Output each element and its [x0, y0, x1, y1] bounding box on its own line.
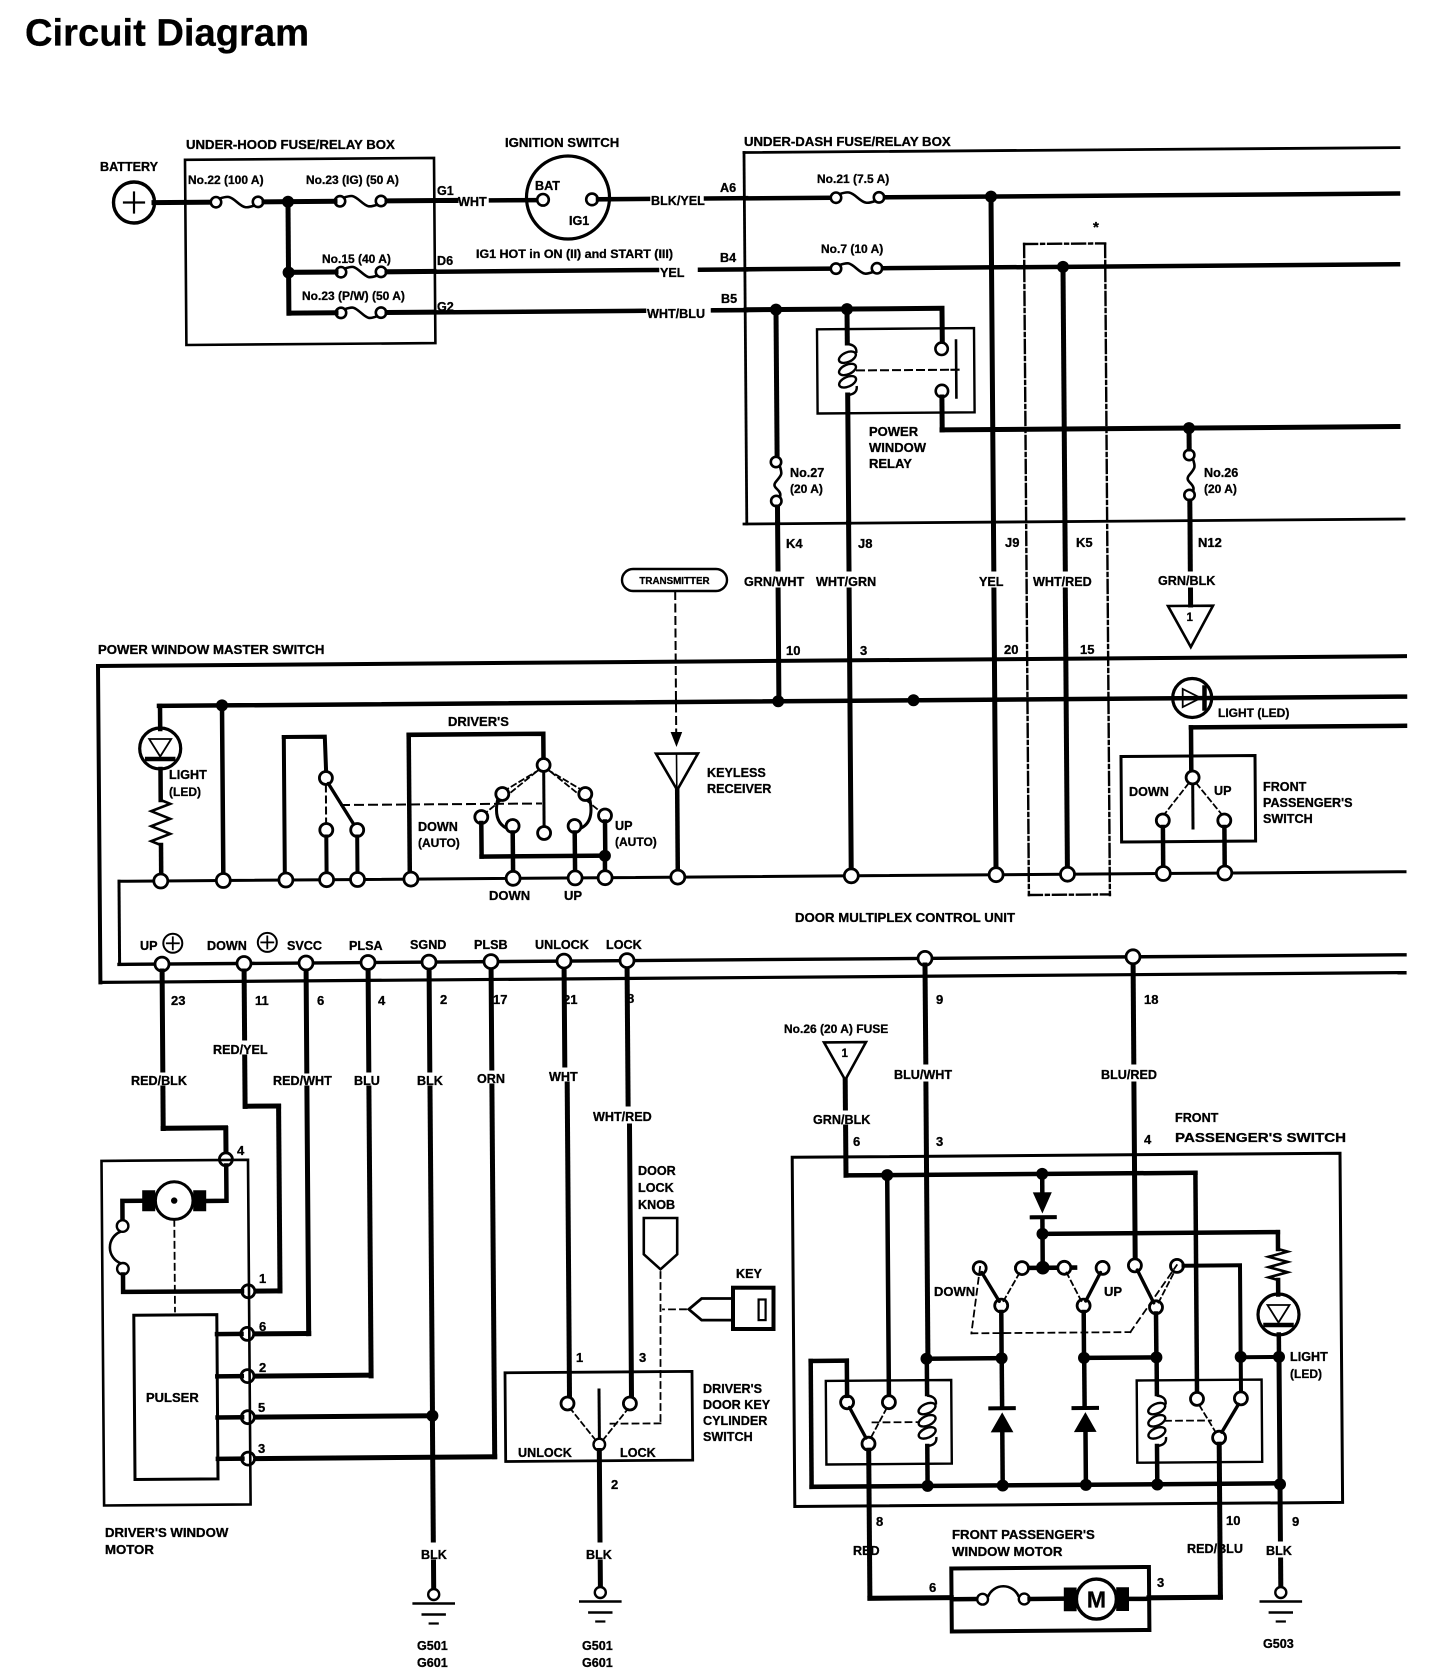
- cylinder switch pivot contact: [594, 1439, 606, 1451]
- svg-text:GRN/BLK: GRN/BLK: [1158, 574, 1215, 588]
- driver's switch UP arc: [578, 798, 592, 830]
- wire N12 GRN/BLK to triangle: [1188, 590, 1193, 605]
- wire BLK junction down to ground: [430, 1416, 436, 1540]
- driver's switch DOWN arc: [497, 798, 511, 830]
- wire J9 YEL lower to control unit: [994, 590, 996, 868]
- wire master internal supply row: [159, 697, 1405, 706]
- svg-text:WHT/GRN: WHT/GRN: [816, 575, 876, 589]
- power window relay box: [817, 328, 975, 413]
- svg-text:DRIVER'S WINDOW: DRIVER'S WINDOW: [105, 1525, 229, 1540]
- node m3 / right coil junction: [1150, 1351, 1162, 1363]
- control unit left edge: [118, 881, 122, 964]
- wire GRN/BLK to FP box pin 6: [843, 1127, 848, 1175]
- wire BLK to ground G503: [1278, 1560, 1283, 1587]
- down relay NO fixed contact (from top bus): [882, 1396, 895, 1409]
- svg-text:FRONT: FRONT: [1175, 1111, 1219, 1125]
- wire m1 down to junction: [999, 1312, 1004, 1358]
- node c6-line / LED return junction: [1235, 1351, 1247, 1363]
- wire diode node down to switch common: [1040, 1234, 1045, 1263]
- lock switch blade: [328, 784, 354, 826]
- wire front passenger switch feed row: [1191, 726, 1405, 728]
- wire down relay moving contact to pin 8: [869, 1450, 870, 1598]
- svg-text:9: 9: [936, 992, 943, 1007]
- driver's switch UP contact: [568, 820, 581, 833]
- svg-text:UP: UP: [615, 819, 633, 833]
- svg-text:1: 1: [576, 1350, 583, 1365]
- wire K4 GRN/WHT upper: [775, 523, 780, 569]
- wire pin8 WHT/RED upper: [627, 971, 628, 1104]
- svg-text:3: 3: [1157, 1575, 1164, 1590]
- svg-text:K4: K4: [786, 536, 803, 551]
- diode D3 lower wire: [1083, 1432, 1088, 1484]
- svg-text:(20 A): (20 A): [790, 482, 823, 496]
- driver's door key cylinder switch box: [505, 1371, 693, 1461]
- wire J9 YEL upper: [991, 197, 994, 569]
- wire lock switch U-left to terminal row: [284, 737, 285, 874]
- FP motor M2 body: [1076, 1579, 1116, 1619]
- power window relay contact bottom: [936, 385, 948, 397]
- wire supply row to control unit x222: [222, 706, 223, 874]
- driver's switch DOWN(AUTO) arc contact: [496, 788, 509, 801]
- wire fuse No.21 to right edge: [885, 194, 1398, 198]
- wire relay row to fuse No.26: [1187, 429, 1192, 450]
- svg-text:DOWN: DOWN: [207, 939, 247, 953]
- FP motor breaker contact right: [1019, 1594, 1030, 1605]
- wire top bus corner down to right relay NC contact: [1195, 1173, 1197, 1392]
- svg-text:UNDER-DASH FUSE/RELAY BOX: UNDER-DASH FUSE/RELAY BOX: [744, 134, 951, 149]
- node BLK / terminal 5 junction: [426, 1410, 438, 1422]
- wire IG1 to BLK/YEL: [598, 197, 648, 202]
- svg-text:J9: J9: [1005, 535, 1019, 550]
- dashed mechanical link motor to pulser: [173, 1220, 176, 1312]
- svg-text:10: 10: [786, 643, 800, 658]
- wire motor to RED/BLU: [1129, 1597, 1148, 1602]
- wire B4 row: [746, 266, 830, 271]
- svg-text:11: 11: [255, 993, 269, 1008]
- driver's switch feed inverted-U: [409, 734, 544, 758]
- connector reference triangle 1 (No.26 fuse): [824, 1042, 866, 1080]
- driver's switch far-left AUTO contact: [475, 811, 488, 824]
- down relay dashed alternate: [872, 1409, 887, 1437]
- svg-text:PLSA: PLSA: [349, 939, 383, 953]
- svg-text:WHT: WHT: [549, 1070, 578, 1084]
- wire BLK/YEL to under-dash A6: [706, 196, 746, 201]
- FP UP moving contact m2: [1077, 1299, 1090, 1312]
- wire LED branch from supply row: [158, 706, 163, 729]
- wire LED to return node: [1277, 1335, 1282, 1357]
- cylinder switch dashed to contact 3: [603, 1410, 627, 1440]
- wire WHT/BLU to under-dash B5: [713, 308, 746, 313]
- wire LED feed corner down: [1276, 1232, 1281, 1249]
- terminal on control unit top row (J8): [844, 869, 858, 883]
- svg-text:No.26 (20 A) FUSE: No.26 (20 A) FUSE: [784, 1022, 888, 1036]
- FP DOWN dashed m1-c2: [1004, 1273, 1020, 1301]
- svg-text:1: 1: [1187, 612, 1194, 624]
- fuse No.23 (P/W) (50 A): [336, 308, 346, 318]
- wire down relay NC jog left: [811, 1358, 847, 1363]
- svg-text:G1: G1: [437, 184, 454, 198]
- fuse No.22 (100 A): [211, 197, 221, 207]
- wire pin6 RED/WHT upper: [304, 971, 310, 1071]
- wire FP top bus: [846, 1173, 1196, 1176]
- svg-text:RED/BLK: RED/BLK: [131, 1074, 187, 1088]
- front passenger LED light: [1258, 1294, 1299, 1335]
- svg-text:*: *: [1093, 219, 1099, 236]
- optional-equipment dash-dot boundary top: [1024, 242, 1105, 245]
- svg-text:RED: RED: [853, 1544, 880, 1558]
- node A6/J9 junction: [985, 191, 997, 203]
- wire relay output row: [942, 427, 1398, 430]
- terminal on control unit top row (FP UP): [1218, 866, 1232, 880]
- FP motor breaker arc: [988, 1586, 1019, 1597]
- wire RED/YEL jog down: [279, 1106, 280, 1291]
- wire UP contact to terminal row: [572, 833, 577, 874]
- wire up relay moving contact to pin 10: [1219, 1444, 1220, 1597]
- terminal on control unit bottom row (pin23): [155, 957, 169, 971]
- svg-text:LOCK: LOCK: [638, 1181, 674, 1195]
- wire pin23 RED/BLK lower: [160, 1088, 165, 1129]
- optional-equipment dash-dot boundary left: [1024, 244, 1029, 895]
- svg-text:G501: G501: [582, 1639, 613, 1653]
- ground G501/G601 (driver side): [428, 1589, 439, 1600]
- node down-coil / ground bus: [922, 1480, 934, 1492]
- FP relay-drive contact c5: [1128, 1259, 1141, 1272]
- svg-text:3: 3: [936, 1134, 943, 1149]
- wire BLK down from bus: [1278, 1485, 1283, 1540]
- dashed link key to knob line: [663, 1308, 686, 1310]
- svg-text:PASSENGER'S: PASSENGER'S: [1263, 796, 1353, 810]
- svg-text:RED/WHT: RED/WHT: [273, 1074, 332, 1088]
- svg-text:FRONT: FRONT: [1263, 780, 1307, 794]
- svg-text:SWITCH: SWITCH: [703, 1430, 753, 1444]
- svg-text:5: 5: [258, 1400, 265, 1415]
- fuse No.21 (7.5 A): [831, 193, 841, 203]
- wire RED/BLK jog right: [163, 1125, 225, 1131]
- connector reference triangle 1 (to No.26 fuse): [1168, 606, 1213, 647]
- motor M1 left brush: [142, 1190, 155, 1211]
- master switch box top edge: [98, 656, 1405, 666]
- driver's switch center floating contact: [538, 827, 551, 840]
- under-dash box bottom edge: [744, 519, 1404, 524]
- svg-text:No.26: No.26: [1204, 466, 1238, 480]
- svg-text:PULSER: PULSER: [146, 1390, 199, 1405]
- under-dash box left edge: [744, 153, 747, 524]
- svg-text:4: 4: [378, 993, 386, 1008]
- wire terminal 5 to BLK junction: [254, 1416, 432, 1417]
- wire jog down to motor terminal 4: [223, 1129, 228, 1154]
- wire m3 junction to right relay coil: [1154, 1358, 1159, 1394]
- node LED return junction: [1273, 1351, 1285, 1363]
- ground G501/G601 (cylinder): [595, 1587, 606, 1598]
- svg-text:PASSENGER'S SWITCH: PASSENGER'S SWITCH: [1175, 1131, 1346, 1145]
- svg-text:9: 9: [1292, 1514, 1299, 1529]
- FP switch DOWN contact: [1156, 814, 1169, 827]
- svg-text:WHT/RED: WHT/RED: [593, 1110, 652, 1124]
- node D2 / ground bus: [997, 1480, 1009, 1492]
- wire feed row corner down to FP pivot: [1189, 727, 1194, 770]
- driver's window motor enclosure box: [102, 1160, 251, 1506]
- up relay moving contact: [1213, 1431, 1226, 1444]
- wire J8 WHT/GRN upper: [846, 523, 851, 569]
- wire BLU/WHT to FP box pin 3 and coil: [926, 1084, 928, 1357]
- driver's switch center blade: [542, 772, 545, 827]
- FP DOWN blade c1-m1: [982, 1273, 999, 1302]
- wire N12 GRN/BLK upper: [1188, 522, 1193, 569]
- wire pin4 BLU lower: [369, 1088, 371, 1376]
- transmitter label box: [622, 569, 727, 591]
- svg-text:6: 6: [929, 1580, 936, 1595]
- ignition switch BAT terminal: [537, 194, 549, 206]
- terminal on control unit top row (driver U): [404, 872, 418, 886]
- wire relay output down: [939, 397, 944, 430]
- node B5/No.27 junction: [770, 304, 782, 316]
- optional-equipment dash-dot boundary right: [1105, 244, 1110, 895]
- svg-text:WHT/RED: WHT/RED: [1033, 575, 1092, 589]
- svg-text:YEL: YEL: [660, 266, 685, 280]
- node B4/K5 junction: [1057, 261, 1069, 273]
- fuse No.7 (10 A): [831, 263, 841, 273]
- svg-text:M: M: [1087, 1587, 1106, 1613]
- terminal on control unit bottom row (pin6): [299, 956, 313, 970]
- svg-text:3: 3: [860, 643, 867, 658]
- wire YEL to under-dash B4: [700, 267, 746, 272]
- diode D2 lower wire: [1000, 1432, 1005, 1485]
- svg-text:UNLOCK: UNLOCK: [518, 1446, 572, 1460]
- under-dash box top edge: [744, 148, 1399, 153]
- wire RED to window motor: [870, 1595, 951, 1601]
- wire node B to fuse No.15: [290, 270, 336, 275]
- FP UP switch fixed contact c4: [1096, 1261, 1109, 1274]
- wire antenna stem to terminal row: [675, 790, 680, 874]
- svg-text:LIGHT: LIGHT: [169, 768, 207, 782]
- wire pin21 WHT lower to cylinder contact 1: [567, 1084, 569, 1397]
- FP relay moving contact m3: [1150, 1301, 1163, 1314]
- svg-text:BLU/RED: BLU/RED: [1101, 1068, 1157, 1082]
- wire pin17 ORN lower: [492, 1086, 495, 1457]
- UP supply symbol: [163, 934, 182, 953]
- FP switch common contact c2: [1016, 1262, 1029, 1275]
- FP relay blade c5-m3: [1137, 1270, 1153, 1303]
- wire ORN to terminal 3: [254, 1457, 495, 1459]
- optional-equipment dash-dot boundary bottom: [1029, 893, 1110, 896]
- terminal on control unit top row (FP DOWN): [1156, 867, 1170, 881]
- svg-text:WINDOW: WINDOW: [869, 440, 927, 455]
- wire G1 WHT segment: [436, 198, 456, 203]
- svg-text:IG1 HOT in ON (II) and START (: IG1 HOT in ON (II) and START (III): [476, 249, 673, 261]
- FP switch dashed linkage trapezoid: [971, 1267, 980, 1333]
- fuse No.15 (40 A): [336, 267, 346, 277]
- diode D3 (up): [1074, 1406, 1098, 1410]
- diode D3 upper wire: [1082, 1358, 1087, 1405]
- power window relay armature bar: [955, 341, 958, 398]
- wire c6 to right relay NO contact horizontal: [1184, 1263, 1241, 1267]
- svg-text:IGNITION SWITCH: IGNITION SWITCH: [505, 135, 619, 150]
- node m2 / right coil link junction: [1078, 1352, 1090, 1364]
- FP switch blade: [1191, 784, 1194, 828]
- driver's window motor M1 body: [155, 1182, 193, 1220]
- wire c6 line corner down: [1238, 1266, 1243, 1351]
- svg-text:DOWN: DOWN: [489, 888, 530, 903]
- svg-text:D6: D6: [437, 254, 453, 268]
- terminal on control unit top row (keyless): [671, 870, 685, 884]
- svg-text:SGND: SGND: [410, 938, 446, 952]
- svg-text:GRN/WHT: GRN/WHT: [744, 575, 804, 589]
- wire BLU to terminal 2: [254, 1373, 371, 1379]
- wire pin17 ORN upper: [489, 971, 495, 1068]
- svg-text:1: 1: [259, 1271, 266, 1286]
- svg-text:BLK/YEL: BLK/YEL: [651, 194, 705, 208]
- terminal on control unit top row (AUTO bus): [598, 871, 612, 885]
- wire AUTO bus junction to terminal row: [603, 856, 608, 874]
- power window relay contact top: [935, 343, 947, 355]
- FP UP blade m2-c4: [1086, 1273, 1101, 1302]
- lock switch contact left: [320, 824, 333, 837]
- terminal on control unit top row (J9): [989, 868, 1003, 882]
- node supply row junction K4: [772, 695, 784, 707]
- wire fuse No.23 IG to G1: [387, 198, 456, 204]
- door multiplex control unit bottom terminal row: [119, 955, 1405, 965]
- node supply row junction x914: [908, 694, 920, 706]
- svg-text:UNLOCK: UNLOCK: [535, 938, 589, 952]
- svg-text:DOWN: DOWN: [418, 820, 458, 834]
- driver's switch DOWN contact: [506, 820, 519, 833]
- interior light LED: [140, 728, 181, 769]
- svg-text:15: 15: [1080, 642, 1094, 657]
- motor M1 right brush: [193, 1190, 206, 1211]
- svg-text:(20 A): (20 A): [1204, 482, 1237, 496]
- wire K5 WHT/RED upper: [1063, 267, 1065, 569]
- FP motor right brush: [1116, 1587, 1129, 1611]
- keyless receiver antenna: [656, 753, 698, 790]
- circuit breaker contact top: [117, 1220, 129, 1232]
- down relay moving contact: [862, 1437, 875, 1450]
- motor terminal 5: [241, 1411, 254, 1424]
- svg-text:B4: B4: [720, 251, 736, 265]
- wire pin2 BLK lower: [430, 1088, 433, 1416]
- svg-text:FRONT PASSENGER'S: FRONT PASSENGER'S: [952, 1527, 1095, 1542]
- driver's switch far-right AUTO contact: [599, 809, 612, 822]
- terminal on control unit top row (driver UP): [568, 871, 582, 885]
- wire pin23 RED/BLK upper: [160, 971, 166, 1070]
- svg-text:UP: UP: [1104, 1284, 1122, 1299]
- ignition switch body: [527, 156, 610, 239]
- svg-text:BLK: BLK: [1266, 1544, 1292, 1558]
- svg-text:LIGHT: LIGHT: [1290, 1350, 1328, 1364]
- wire P/W branch to fuse: [290, 310, 336, 315]
- wire pin8 WHT/RED lower to cylinder contact 3: [630, 1126, 632, 1397]
- wire motor left brush to breaker: [122, 1201, 142, 1221]
- node top bus / diode feed: [1036, 1168, 1048, 1180]
- wire lock switch left contact down: [324, 837, 328, 874]
- terminal on control unit top row (LED/resistor): [154, 874, 168, 888]
- wire A6 row: [746, 196, 830, 201]
- svg-text:KEY: KEY: [736, 1267, 762, 1281]
- fuse No.23 (IG) (50 A): [335, 196, 345, 206]
- diode D2 (up): [990, 1406, 1014, 1410]
- svg-text:8: 8: [876, 1514, 883, 1529]
- svg-text:UP: UP: [140, 939, 158, 953]
- wire pin11 RED/YEL lower: [242, 1057, 247, 1106]
- wire fuse No.15 to D6: [387, 269, 434, 274]
- svg-text:DOOR: DOOR: [638, 1164, 676, 1178]
- wire motor terminal 4 to right brush: [207, 1166, 227, 1202]
- svg-text:RECEIVER: RECEIVER: [707, 782, 771, 796]
- FP motor left brush: [1064, 1588, 1077, 1612]
- wire FP DOWN contact to terminal row: [1161, 827, 1166, 867]
- svg-text:KEYLESS: KEYLESS: [707, 766, 766, 780]
- svg-text:23: 23: [171, 993, 185, 1008]
- diode D2 upper wire: [999, 1359, 1004, 1406]
- wire resistor to terminal row: [159, 845, 164, 874]
- door multiplex control unit top terminal row: [119, 872, 1405, 882]
- terminal on control unit bottom row (pin9): [918, 951, 932, 965]
- up relay NC fixed contact (from top bus): [1191, 1392, 1204, 1405]
- svg-text:WHT: WHT: [458, 195, 487, 209]
- wire J8 WHT/GRN lower to control unit: [849, 590, 851, 869]
- svg-text:G501: G501: [417, 1639, 448, 1653]
- wire pin2 BLK upper: [427, 971, 433, 1070]
- wire pin18 BLU/RED upper: [1131, 965, 1137, 1062]
- terminal on control unit top row (driver DOWN): [506, 871, 520, 885]
- svg-text:(AUTO): (AUTO): [418, 836, 460, 850]
- svg-text:2: 2: [440, 992, 447, 1007]
- driver's switch UP(AUTO) arc contact: [579, 788, 592, 801]
- wire B5 to fuse No.27: [776, 310, 777, 456]
- svg-text:10: 10: [1226, 1513, 1240, 1528]
- svg-text:17: 17: [493, 992, 507, 1007]
- up relay dashed to coil: [1165, 1420, 1211, 1422]
- svg-text:LIGHT (LED): LIGHT (LED): [1218, 706, 1289, 720]
- svg-text:UP: UP: [1214, 784, 1232, 798]
- wire K4 GRN/WHT lower to master switch: [776, 590, 782, 701]
- up relay NO fixed contact: [1234, 1392, 1247, 1405]
- svg-text:K5: K5: [1076, 535, 1093, 550]
- lock switch dashed alternate position: [325, 786, 327, 823]
- svg-text:RED/BLU: RED/BLU: [1187, 1542, 1243, 1556]
- svg-text:3: 3: [258, 1441, 265, 1456]
- wire LED return to c6-line: [1241, 1355, 1279, 1359]
- svg-text:DOOR MULTIPLEX CONTROL UNIT: DOOR MULTIPLEX CONTROL UNIT: [795, 910, 1015, 925]
- wire AUTO bus: [482, 853, 606, 858]
- svg-text:(LED): (LED): [1290, 1367, 1322, 1381]
- node BLU/WHT coil junction: [921, 1353, 933, 1365]
- node AUTO bus junction: [599, 850, 611, 862]
- svg-text:BAT: BAT: [535, 179, 560, 193]
- ignition switch IG1 terminal: [586, 194, 598, 206]
- svg-text:A6: A6: [720, 181, 736, 195]
- master switch box left edge: [98, 666, 100, 982]
- wire pulser to terminal 2: [217, 1374, 242, 1379]
- front passenger's switch box (master): [1121, 756, 1256, 843]
- wire ground bus: [812, 1483, 1281, 1487]
- wire BLK to ground G501/G601 (cylinder): [598, 1562, 603, 1587]
- svg-text:LOCK: LOCK: [620, 1446, 656, 1460]
- circuit breaker arc: [110, 1232, 121, 1264]
- terminal on control unit top row (K5): [1061, 867, 1075, 881]
- down relay dashed to coil: [873, 1421, 920, 1423]
- svg-text:No.15 (40 A): No.15 (40 A): [322, 252, 391, 266]
- wire pin4 BLU upper: [366, 971, 372, 1070]
- wire lock switch right contact down: [355, 837, 359, 874]
- wire diode D1 to LED feed node: [1040, 1219, 1045, 1234]
- motor terminal 3: [242, 1452, 255, 1465]
- mechanical link dashed lock-driver: [341, 804, 541, 806]
- key symbol head: [733, 1288, 774, 1329]
- terminal on control unit top row (supply x222): [216, 874, 230, 888]
- wire breaker to terminal 1 row: [123, 1275, 242, 1292]
- svg-text:4: 4: [1144, 1132, 1152, 1147]
- power window relay actuation dashed link: [857, 369, 950, 372]
